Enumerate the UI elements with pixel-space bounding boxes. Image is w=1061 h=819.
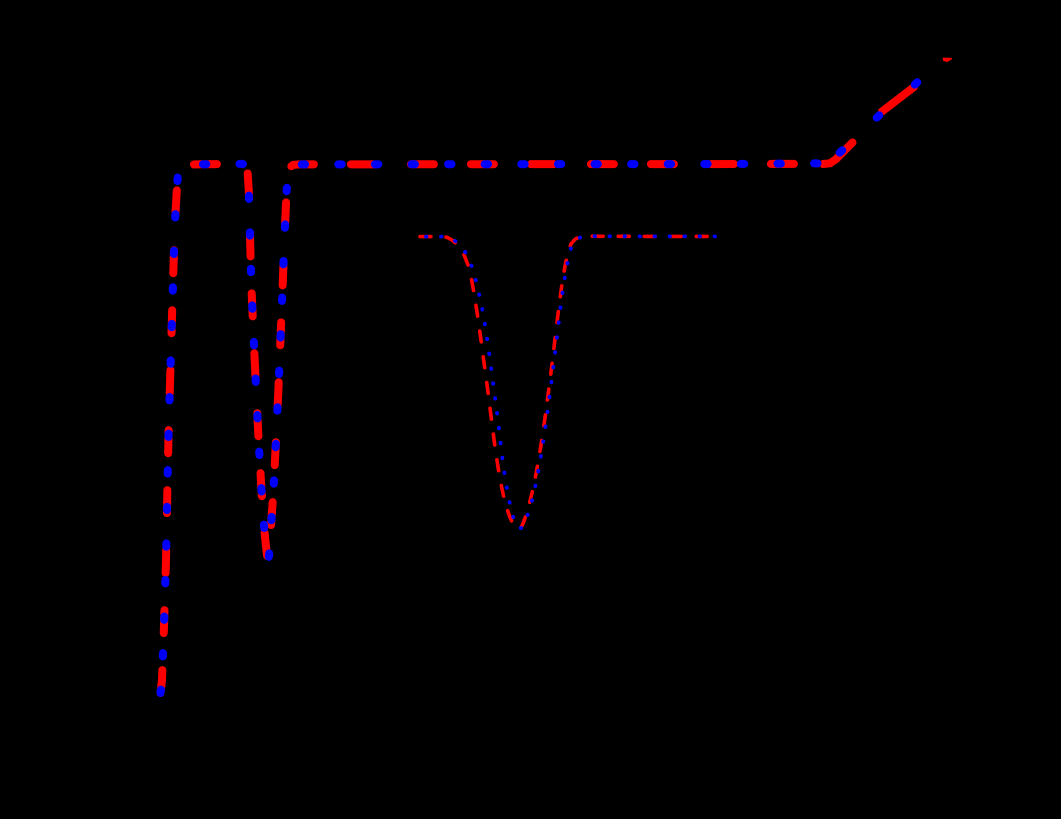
red dashed curve 2 (thin): notch with plateaus: [420, 236, 722, 529]
red dashed curve 1 (thick): left vertical, plateau, narrow dip, plateau: [161, 164, 828, 693]
blue dotted curve 1 (thick dots): [161, 163, 831, 693]
blue dotted curve 2 (small dots): [420, 236, 727, 528]
blue dot on ramp 3: [915, 82, 918, 84]
blue dot on ramp 1: [840, 150, 843, 152]
red clipped dash at top right tip: [943, 58, 952, 62]
red dash at corner rising into right ramp: [823, 143, 853, 165]
blue dot on ramp 2: [877, 115, 880, 117]
red dash on rising ramp: [882, 87, 914, 112]
